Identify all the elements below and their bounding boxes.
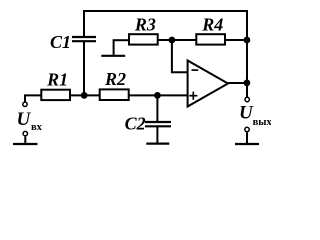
input ground <box>13 136 38 144</box>
output ground <box>235 132 259 144</box>
wire: C2 bottom to ground <box>156 126 158 143</box>
op-amp minus sign <box>192 69 199 71</box>
node C junction dot <box>169 37 176 44</box>
wire: node C down and right to op-amp inverting input <box>172 40 187 72</box>
capacitor C2 <box>145 122 171 126</box>
resistor R1 <box>41 90 70 100</box>
svg-text:R3: R3 <box>134 14 156 34</box>
svg-text:R4: R4 <box>201 14 223 34</box>
wire: node B down to C2 <box>156 95 158 122</box>
output ground terminal circle <box>245 127 249 131</box>
op-amp U1 triangle <box>188 61 228 107</box>
resistor R4 <box>196 34 225 44</box>
capacitor C1 <box>72 37 96 41</box>
wire: op-amp output to output node <box>228 82 246 84</box>
svg-text:вх: вх <box>31 122 43 133</box>
node B junction dot <box>154 92 161 99</box>
svg-text:U: U <box>17 109 32 130</box>
wire: R2 to op-amp non-inverting input through node B <box>129 94 187 96</box>
wire: R1 to R2 through node A <box>70 94 100 96</box>
svg-text:R1: R1 <box>46 69 68 89</box>
wire: right rail node D to output dot and terminal <box>246 40 248 97</box>
output junction dot <box>244 80 251 87</box>
output terminal circle <box>245 97 249 101</box>
svg-text:R2: R2 <box>104 69 126 89</box>
resistor R3 <box>129 34 158 44</box>
ground bar below C2 <box>146 143 169 145</box>
input terminal circle <box>23 102 27 106</box>
wire: R4 to node D <box>225 39 246 41</box>
wire: top feedback rail from C1 top to right rail <box>84 11 247 40</box>
ground for R3 left side <box>101 40 125 56</box>
label U vx <box>17 109 43 133</box>
node D junction dot <box>244 37 251 44</box>
op-amp plus sign <box>189 92 197 100</box>
svg-text:C1: C1 <box>50 32 71 52</box>
svg-text:вых: вых <box>253 117 271 128</box>
resistor R2 <box>100 89 129 100</box>
input ground terminal circle <box>23 131 27 135</box>
wire: R3 ground stub to R3 left terminal <box>113 39 128 41</box>
node A junction dot <box>81 92 88 99</box>
label U vyx <box>239 102 272 128</box>
wire: R3 to R4 through node C <box>158 39 197 41</box>
wire: input terminal to R1 <box>25 95 41 101</box>
wire: C1 bottom to node A <box>83 42 85 96</box>
svg-text:C2: C2 <box>125 114 146 134</box>
